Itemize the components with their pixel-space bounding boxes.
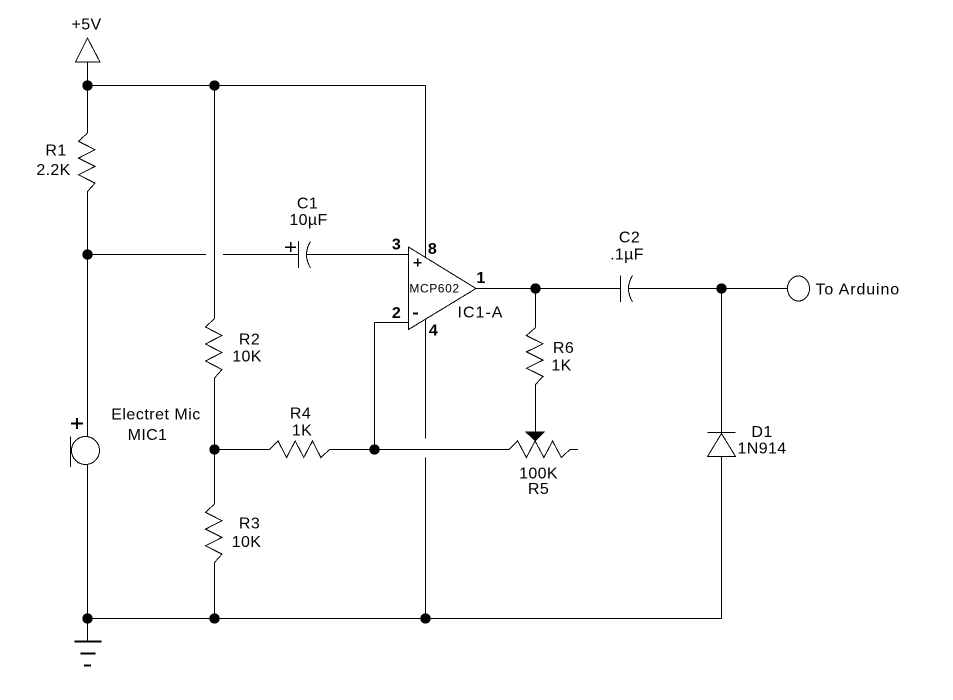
op-amp U1 IC1-A triangle	[409, 247, 477, 330]
resistor R1	[79, 133, 96, 192]
label Electret Mic MIC1	[111, 407, 201, 445]
node +5V rail left	[82, 80, 92, 90]
svg-text:To Arduino: To Arduino	[816, 282, 901, 299]
node ground left	[82, 613, 92, 623]
wire pin4 to bottom rail (gap at crossing)	[425, 320, 427, 439]
svg-text:2.2K: 2.2K	[36, 162, 70, 179]
wire pin2	[375, 322, 409, 324]
wire top rail	[88, 85, 426, 87]
svg-text:+5V: +5V	[72, 17, 102, 34]
svg-text:3: 3	[392, 237, 401, 254]
svg-text:4: 4	[429, 323, 438, 340]
wire gap-hop then to C1	[223, 254, 299, 256]
svg-text:8: 8	[428, 241, 437, 258]
op-amp minus marker	[413, 313, 418, 315]
node R2 R3 R4	[209, 444, 219, 454]
svg-text:R6: R6	[553, 340, 574, 357]
wire R1 to mic	[87, 192, 89, 437]
wire R2 to node	[214, 378, 216, 450]
svg-text:10K: 10K	[232, 534, 262, 551]
svg-text:R1: R1	[45, 143, 66, 160]
wire pot right stub	[570, 449, 578, 451]
ground	[75, 619, 102, 666]
resistor R2	[206, 319, 223, 379]
wire bottom rail	[88, 618, 722, 620]
capacitor C2	[621, 276, 633, 303]
wire R4 row from node	[215, 449, 270, 451]
svg-text:Electret Mic: Electret Mic	[111, 407, 201, 424]
label R1 2.2K	[36, 143, 70, 180]
resistor R4	[270, 441, 330, 458]
label R6 1K	[551, 340, 574, 375]
node rail / pin4	[420, 613, 430, 623]
wire middle vertical from top rail to R2	[214, 86, 216, 319]
potentiometer wiper arrow	[526, 432, 544, 441]
svg-text:C1: C1	[297, 196, 318, 213]
wire R6 to wiper	[535, 385, 537, 433]
node C2 / D1	[716, 283, 726, 293]
wire diode to bottom rail	[721, 457, 723, 619]
resistor R6	[527, 328, 544, 385]
svg-text:1K: 1K	[292, 423, 312, 440]
wire left vertical upper	[87, 86, 89, 134]
svg-text:1N914: 1N914	[738, 441, 787, 458]
svg-text:10µF: 10µF	[289, 212, 327, 229]
wire op-amp output	[476, 288, 621, 290]
svg-text:MCP602: MCP602	[409, 282, 459, 296]
svg-text:R3: R3	[239, 516, 260, 533]
svg-text:2: 2	[392, 305, 401, 322]
terminal To Arduino	[788, 276, 810, 301]
svg-text:10K: 10K	[232, 349, 262, 366]
wire diode branch top	[721, 289, 723, 433]
potentiometer R5 track	[509, 441, 570, 458]
wire mic to bottom rail	[87, 464, 89, 618]
capacitor C1	[285, 241, 311, 268]
wire C2 to terminal	[629, 288, 788, 290]
node pin2 / R4	[369, 444, 379, 454]
svg-text:D1: D1	[751, 424, 772, 441]
node rail / R2	[209, 80, 219, 90]
label C1 10uF	[289, 196, 327, 230]
wire R3 to bottom rail	[214, 563, 216, 619]
svg-text:1K: 1K	[551, 358, 571, 375]
diode D1	[708, 433, 736, 457]
wire R6 branch	[535, 289, 537, 328]
label D1 1N914	[738, 424, 787, 458]
svg-text:C2: C2	[619, 230, 640, 247]
svg-text:R4: R4	[290, 406, 311, 423]
label C2 .1uF	[610, 230, 644, 264]
svg-text:100K: 100K	[519, 466, 558, 483]
svg-text:.1µF: .1µF	[610, 247, 644, 264]
wire pin8 from top rail	[425, 86, 427, 258]
svg-text:1: 1	[476, 270, 485, 287]
label R2 10K	[232, 332, 262, 366]
svg-text:IC1-A: IC1-A	[458, 305, 504, 322]
label R4 1K	[290, 406, 312, 440]
node R1 / C1	[82, 249, 92, 259]
resistor R3	[206, 504, 223, 563]
svg-text:R2: R2	[239, 332, 260, 349]
wire C1 to op-amp pin3	[307, 254, 409, 256]
label 100K R5	[519, 466, 558, 499]
node rail / R3	[209, 613, 219, 623]
svg-text:R5: R5	[528, 481, 549, 498]
op-amp plus marker	[414, 259, 422, 267]
node output / R6	[530, 283, 540, 293]
wire node to R3	[214, 450, 216, 505]
wire R4 to pot	[330, 449, 510, 451]
node A wire to C1 (left part)	[88, 254, 207, 256]
svg-text:MIC1: MIC1	[128, 427, 168, 444]
microphone MIC1	[71, 418, 100, 467]
power +5V symbol	[76, 38, 101, 86]
label R3 10K	[232, 516, 262, 552]
